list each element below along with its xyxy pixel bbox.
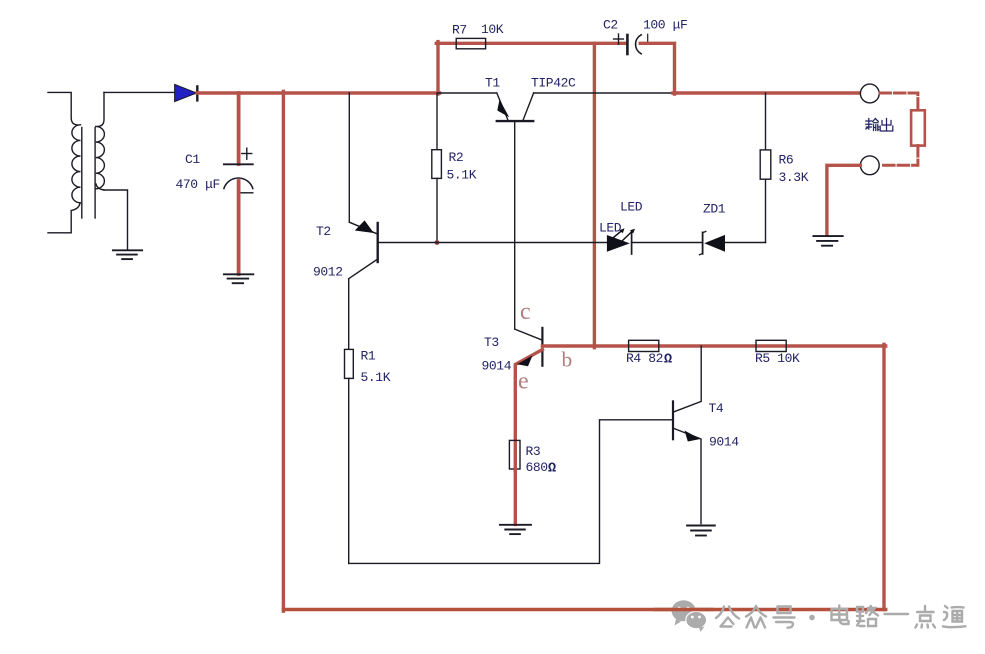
svg-text:R4 82: R4 82 [626,351,663,366]
svg-text:100 μF: 100 μF [643,18,687,33]
svg-text:R7: R7 [452,23,467,38]
svg-text:LED: LED [620,200,643,215]
svg-text:9014: 9014 [709,435,739,450]
char gong [716,607,739,627]
resistor R2 top lead [436,93,438,150]
watermark text gongzhonghao dianlu yidiantong [716,606,966,628]
load resistor [911,110,925,145]
wire mid red vertical [593,43,596,347]
wire secondary top to diode [104,91,175,93]
resistor R3 [509,440,520,469]
output dashed bottom [880,146,918,166]
svg-text:T3: T3 [484,335,499,350]
LED emission arrows [614,230,634,241]
wire R7 left leg red [436,42,439,94]
wire rail black right section [534,92,675,94]
svg-text:5.1K: 5.1K [447,168,477,183]
resistor R4 [629,340,659,351]
svg-text:9014: 9014 [482,359,512,374]
svg-text:680: 680 [526,460,548,475]
svg-text:10K: 10K [481,22,504,37]
svg-text:Ω: Ω [664,353,672,368]
ground R3 [500,525,531,534]
wire R7 top red [436,42,626,45]
zener ZD1 [702,232,704,253]
ground output [813,236,842,246]
output terminal bottom [860,156,879,175]
capacitor C2 [614,34,648,54]
resistor R5 [756,340,786,351]
transistor T2 [349,222,378,279]
wire rail red to output [673,91,860,94]
transistor T3 collector lead diag [515,329,543,340]
char hao [774,607,795,628]
svg-text:c: c [520,299,531,325]
transformer core [81,128,83,219]
T4 collector [673,346,701,412]
wire bottom black [349,420,673,564]
transistor T1 [497,93,534,121]
watermark wechat icon [672,600,707,632]
transformer secondary winding [96,92,104,190]
wire b-line red [542,344,885,347]
wire rectified rail red [197,91,440,94]
LED D2 [607,235,630,252]
resistor R1 top lead [348,279,350,350]
capacitor C1 [224,148,253,193]
wire bottom red bus over icon [655,608,712,611]
transistor T3 emitter red [515,350,542,471]
wire rail black left section [438,92,497,94]
svg-text:R2: R2 [449,150,464,165]
output terminal top [860,84,879,103]
svg-text:e: e [518,369,529,395]
diode D1 [175,84,197,101]
svg-text:9012: 9012 [313,265,343,280]
svg-text:ZD1: ZD1 [703,202,726,217]
resistor R6 top lead [765,93,767,150]
resistor R1 bottom lead [348,378,350,563]
svg-text:C1: C1 [185,152,200,167]
wire secondary to ground [104,190,128,250]
T4 emitter arrow [685,431,701,442]
svg-text:b: b [562,348,573,372]
svg-text:R1: R1 [361,349,376,364]
svg-text:T1: T1 [485,76,500,91]
T4 emitter [673,428,701,523]
char zhong [746,606,766,628]
svg-text:T4: T4 [709,401,724,416]
resistor R1 [345,349,354,378]
wire bottom red bus [283,608,885,611]
transformer primary winding [48,92,80,232]
char dian [832,606,849,625]
resistor R7 [456,38,485,48]
svg-text:C2: C2 [603,18,618,33]
resistor R6 bottom lead [765,179,767,242]
wire bottom terminal to ground red [827,165,860,234]
transistor T4 bar [672,401,674,439]
svg-text:TIP42C: TIP42C [531,76,576,91]
wire C1 lead red [237,93,241,164]
char lu [857,606,878,626]
wire ZD1 to R6 [725,242,766,244]
svg-text:Ω: Ω [548,462,556,477]
T3 emitter arrow [517,356,533,367]
junction dot R2 base [435,240,440,245]
wire right red bus [882,344,885,609]
resistor R2 bottom lead [436,178,438,242]
svg-text:470 μF: 470 μF [176,177,220,192]
wire left red bus down [282,91,285,611]
middle dot [809,615,815,621]
char tong [943,606,966,627]
ground C1 [224,274,253,283]
wire R3 to ground red [514,469,517,524]
wire T2 base line [378,242,608,244]
svg-text:R6: R6 [779,153,794,168]
T1 base lead [514,121,516,329]
svg-text:5.1K: 5.1K [361,370,391,385]
ground T4 [687,526,715,536]
char yi [885,613,909,615]
resistor R6 [760,150,771,179]
wire LED to ZD1 [632,242,703,244]
svg-text:R3: R3 [526,444,541,459]
svg-text:LED: LED [599,221,622,236]
transistor T2 emitter lead [348,93,350,222]
wire C1 to ground red [237,181,241,274]
wire C2 to rail red [640,43,674,94]
svg-text:R5 10K: R5 10K [755,351,800,366]
resistor R2 [432,150,442,179]
output dashed top [880,93,918,110]
ground transformer [113,250,142,259]
transistor T3 bar [541,328,543,366]
svg-text:T2: T2 [316,224,331,239]
svg-text:3.3K: 3.3K [779,170,809,185]
char dian2 [916,606,936,628]
label shuchu (output) [866,119,893,132]
